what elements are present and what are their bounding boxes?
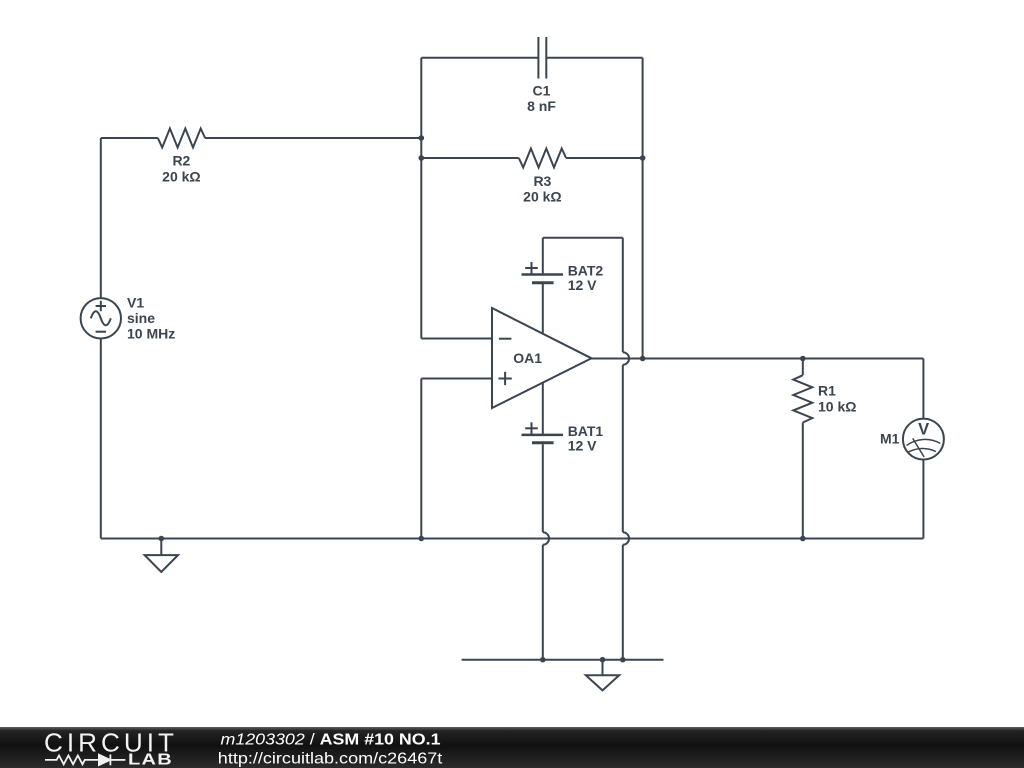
footer bar — [0, 727, 1024, 768]
resistor R3 — [519, 149, 566, 168]
node junction R1 bottom — [800, 536, 806, 542]
svg-text:12 V: 12 V — [568, 438, 597, 454]
svg-text:BAT2: BAT2 — [568, 263, 604, 279]
svg-text:12 V: 12 V — [568, 277, 597, 293]
wire supply right vertical segment 3 — [622, 545, 624, 660]
wire BAT1 bottom segment 2 — [542, 545, 544, 660]
node junction R1 top — [800, 356, 806, 362]
battery BAT1 — [522, 422, 564, 443]
resistor R2 — [158, 129, 205, 148]
svg-text:R2: R2 — [172, 152, 190, 168]
wire hop over bottom wire — [543, 532, 549, 545]
voltage source V1 — [81, 298, 121, 338]
svg-text:R3: R3 — [533, 173, 551, 189]
wire top-right C1 lead — [546, 57, 642, 59]
wire top-left C1 lead — [421, 57, 538, 59]
node junction GND2 bar — [600, 657, 606, 663]
wire op-amp output — [592, 358, 924, 360]
svg-text:LAB: LAB — [128, 752, 173, 768]
wire op-amp V- pin to BAT1 — [542, 383, 544, 434]
svg-text:sine: sine — [127, 310, 155, 326]
svg-text:m1203302 / ASM #10 NO.1: m1203302 / ASM #10 NO.1 — [221, 732, 441, 749]
wire M1 top lead — [922, 359, 924, 419]
svg-text:V: V — [918, 420, 929, 438]
wire left vertical upper (inverting input net) — [420, 58, 422, 339]
node junction supply bar — [620, 657, 626, 663]
wire bottom supply bar — [462, 659, 664, 661]
wire inverting input — [421, 338, 492, 340]
svg-text:R1: R1 — [818, 382, 836, 398]
ground GND1 — [145, 539, 178, 572]
wire right vertical (feedback net) — [642, 58, 644, 359]
node junction BAT1 bar — [540, 657, 546, 663]
wire BAT2 minus to op-amp V+ pin — [542, 284, 544, 334]
wire left vertical lower (non-inverting input net) — [420, 379, 422, 539]
svg-text:BAT1: BAT1 — [568, 423, 604, 439]
wire supply right vertical segment 2 — [622, 365, 624, 532]
wire R2 right lead — [205, 137, 421, 139]
node junction left vertical bottom — [419, 536, 425, 542]
svg-text:http://circuitlab.com/c26467t: http://circuitlab.com/c26467t — [218, 750, 443, 767]
node junction R2/feedback — [419, 135, 425, 141]
wire R3 left lead — [421, 157, 519, 159]
wire supply right vertical segment 1 — [622, 238, 624, 352]
wire R2 left lead — [101, 137, 158, 139]
wire non-inverting input — [421, 378, 492, 380]
voltmeter M1 — [903, 419, 944, 460]
node junction feedback/output — [640, 356, 646, 362]
node junction R3 left — [419, 155, 425, 161]
ground GND2 — [586, 660, 619, 691]
wire hop over output wire — [623, 352, 629, 365]
wire BAT1 bottom segment 1 — [542, 444, 544, 532]
svg-text:10 kΩ: 10 kΩ — [818, 398, 856, 414]
svg-text:C1: C1 — [533, 83, 551, 99]
footer logo resistor-diode glyph — [45, 755, 125, 766]
wire V1 top to R2 — [100, 138, 102, 298]
wire R3 right lead — [566, 157, 643, 159]
svg-text:20 kΩ: 20 kΩ — [162, 168, 200, 184]
resistor R1 — [793, 375, 812, 422]
node junction GND1 — [159, 536, 165, 542]
wire R1 top lead — [802, 359, 804, 376]
capacitor C1 — [538, 37, 546, 79]
wire BAT2 plus lead — [542, 238, 544, 274]
node junction R3 right — [640, 155, 646, 161]
svg-text:OA1: OA1 — [513, 350, 542, 366]
wire R1 bottom lead — [802, 423, 804, 539]
wire BAT2 top horizontal — [543, 237, 623, 239]
svg-text:10 MHz: 10 MHz — [127, 325, 175, 341]
wire V1 bottom — [100, 339, 102, 539]
op-amp OA1 — [492, 308, 592, 408]
svg-text:20 kΩ: 20 kΩ — [523, 189, 561, 205]
wire bottom horizontal (ground net) — [101, 538, 924, 540]
wire M1 bottom lead — [922, 460, 924, 539]
battery BAT2 — [522, 262, 564, 283]
svg-text:V1: V1 — [127, 294, 144, 310]
svg-text:8 nF: 8 nF — [527, 98, 556, 114]
svg-text:M1: M1 — [880, 430, 900, 446]
wire hop over bottom wire — [623, 532, 629, 545]
